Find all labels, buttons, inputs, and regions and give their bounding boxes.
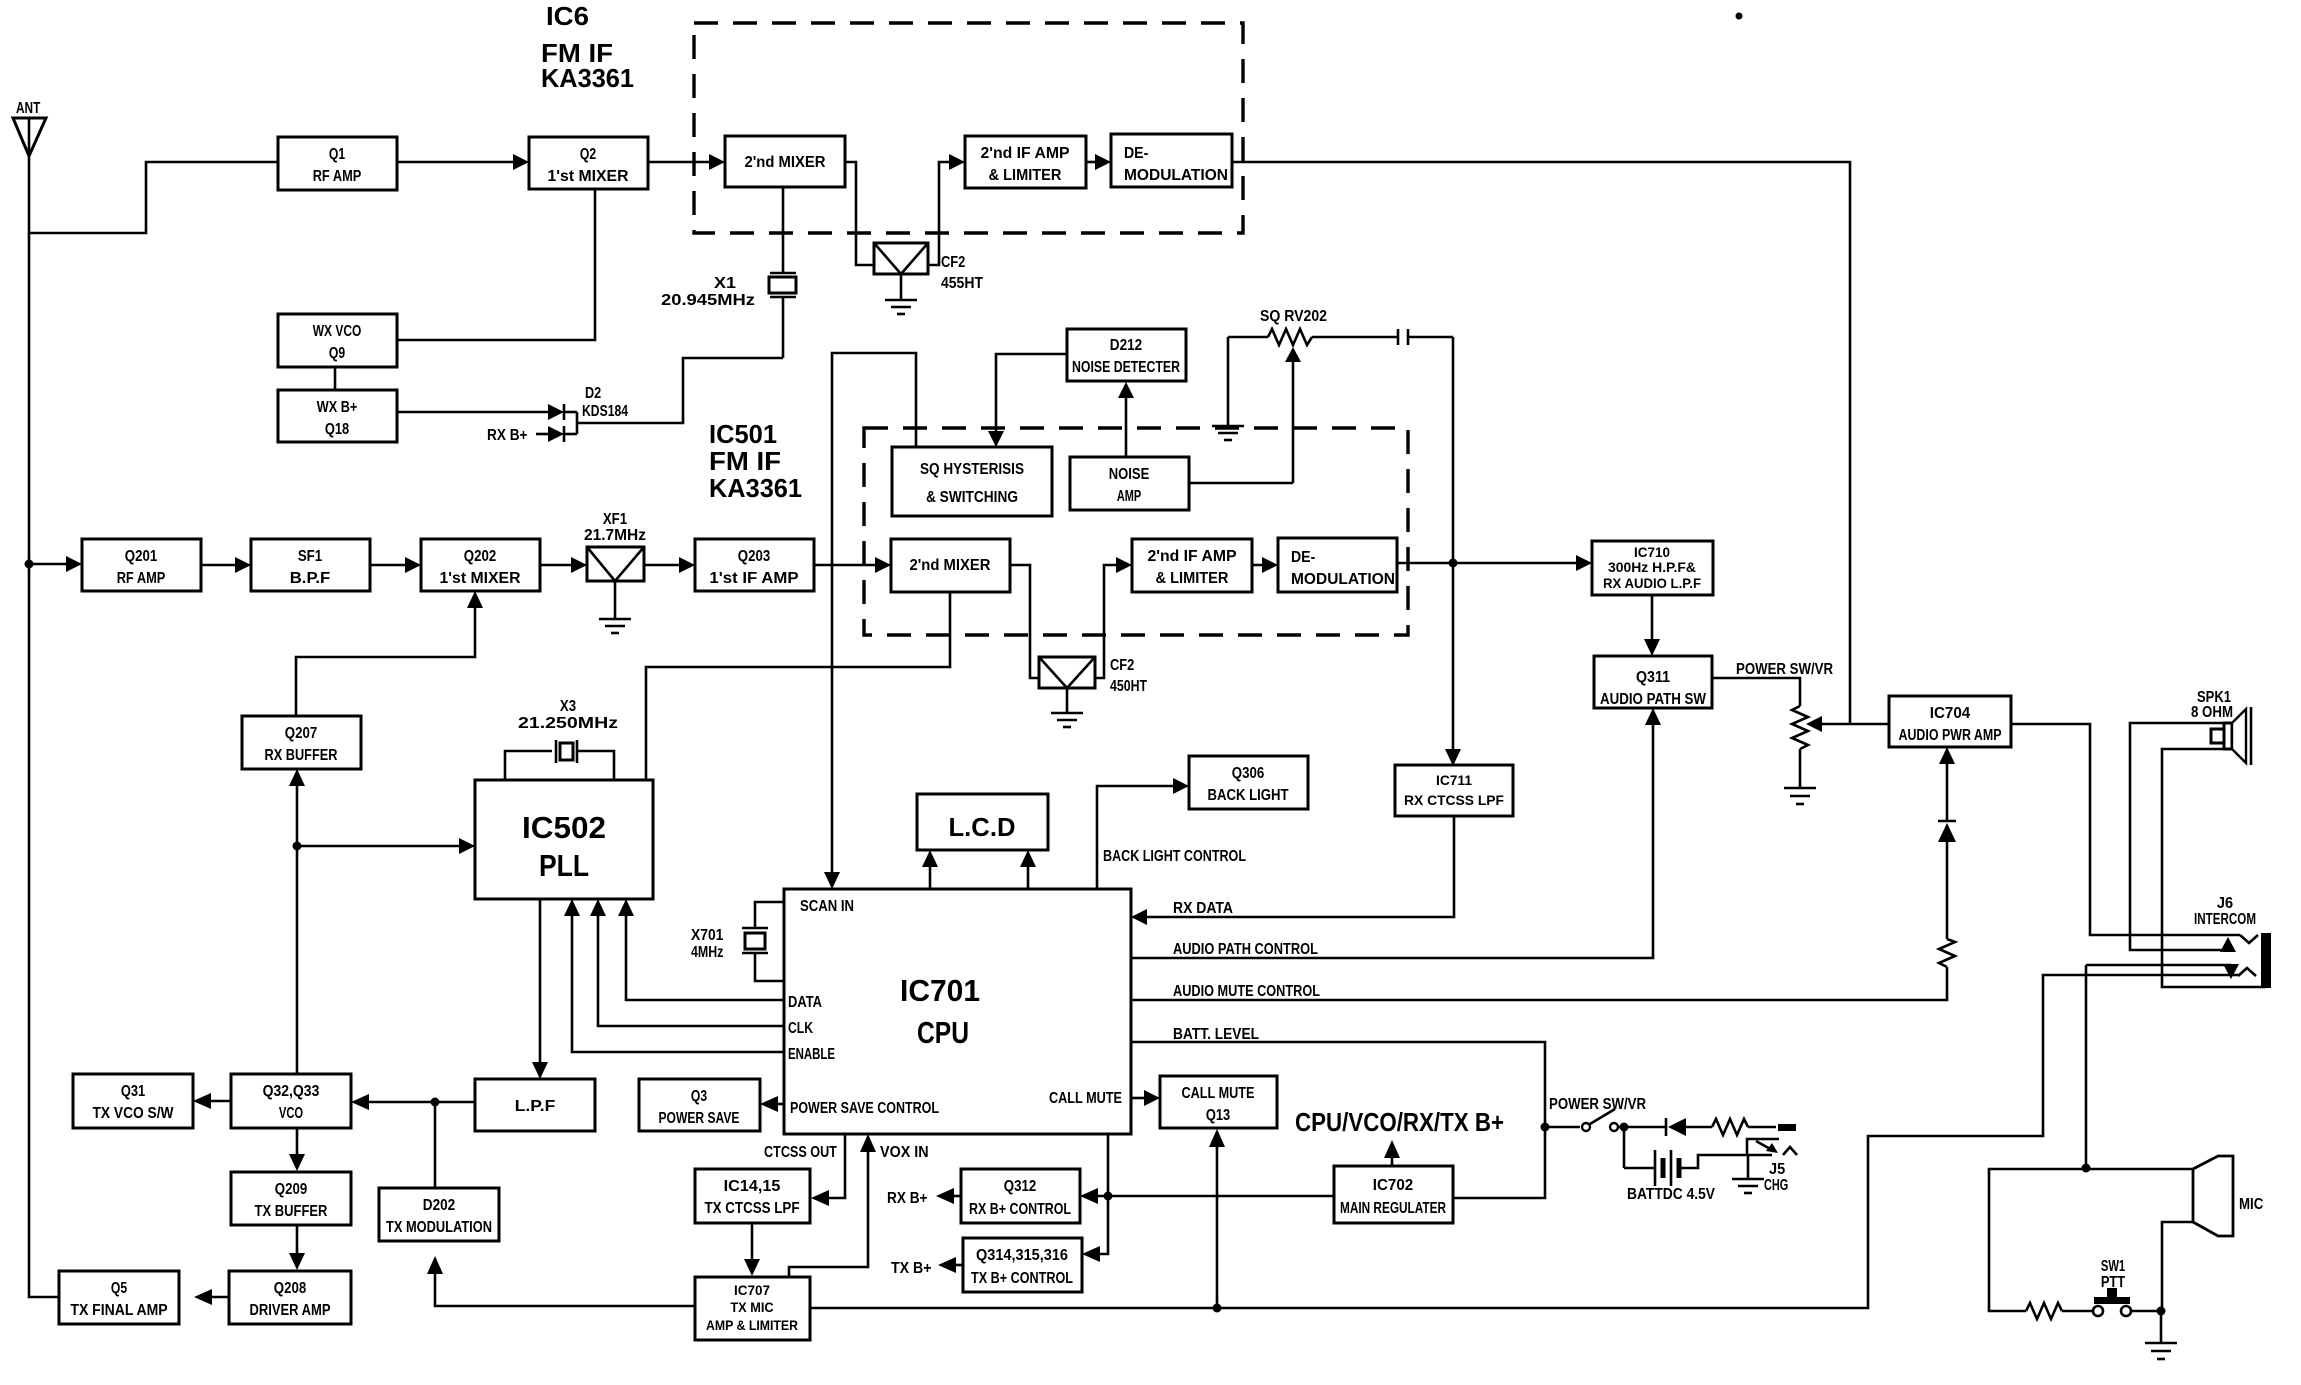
wire Q2 to 2'nd mixer [648,161,711,164]
antenna ANT [13,100,46,156]
svg-text:RF AMP: RF AMP [313,168,362,185]
svg-text:TX CTCSS LPF: TX CTCSS LPF [705,1200,800,1217]
wire Q311 to volume pot [1711,678,1800,706]
transistor Q2 1'st MIXER [529,137,648,189]
svg-text:RX B+: RX B+ [487,427,528,444]
transistor Q32,Q33 VCO [231,1074,351,1128]
wire B+ rail from IC707 to J6 [810,975,2238,1308]
svg-text:Q202: Q202 [464,548,496,565]
svg-text:BATTDC 4.5V: BATTDC 4.5V [1627,1186,1715,1203]
wire resistor to diode [1946,840,1949,939]
svg-text:SF1: SF1 [298,548,322,565]
svg-text:Q13: Q13 [1206,1107,1230,1124]
svg-text:TX MODULATION: TX MODULATION [386,1219,492,1236]
wire CPU audio mute control to IC704 [1131,967,1947,1000]
wire CPU audio path control to Q311 [1131,708,1661,958]
svg-text:Q314,315,316: Q314,315,316 [976,1247,1068,1264]
wire ENABLE CPU to PLL [564,899,784,1052]
svg-text:L.P.F: L.P.F [515,1098,556,1115]
svg-text:Q9: Q9 [329,345,345,362]
svg-text:SQ HYSTERISIS: SQ HYSTERISIS [920,461,1024,478]
svg-text:Q31: Q31 [121,1083,145,1100]
svg-text:CTCSS OUT: CTCSS OUT [764,1144,837,1161]
svg-text:IC701: IC701 [900,973,980,1008]
wiper arrow to IC704 [1806,716,1889,732]
wire CPU to Q306 back light [1097,786,1175,889]
wire IC14,15 to IC707 [744,1223,760,1276]
svg-text:NOISE DETECTER: NOISE DETECTER [1072,359,1180,376]
junction ANT/Q201 [25,560,34,569]
wire Q209 to Q208 [289,1225,305,1270]
wire CPU batt level to battery node [1131,1042,1545,1127]
transistor Q1 RF AMP [278,137,397,190]
wire CLK CPU to PLL [590,899,784,1026]
switch SW1 push button [2093,1288,2159,1316]
crystal X3 21.250MHz [505,698,618,780]
svg-text:Q203: Q203 [738,548,770,565]
svg-text:Q5: Q5 [111,1280,127,1297]
wire Q1 to Q2 [397,161,515,164]
block NOISE AMP [1070,457,1189,510]
svg-text:300Hz H.P.F&: 300Hz H.P.F& [1608,559,1696,575]
transistor Q202 1'st MIXER [421,539,540,591]
wire battery to J5 sleeve [1679,1155,1747,1168]
wire CF2 450HT to 2'nd IF amp [1095,565,1118,678]
wire Q208 to Q5 [194,1289,229,1305]
block IC707 TX MIC AMP & LIMITER [695,1277,810,1340]
wire Q201 to SF1 [201,564,237,567]
svg-text:RF AMP: RF AMP [117,570,166,587]
dashed box IC501 [864,428,1408,635]
block Q306 BACK LIGHT [1189,756,1308,809]
svg-text:VOX IN: VOX IN [880,1144,929,1161]
block D212 NOISE DETECTER [1067,329,1186,381]
wire MIC bottom to junction [2162,1222,2193,1311]
wire capacitor down to demod node [1452,337,1455,563]
wire CF2 to 2'nd IF amp [928,162,951,265]
wire IC707 to D202 [427,1256,695,1306]
wire resistor to switch [2062,1310,2092,1313]
connector J5 CHG jack [1747,1139,1797,1194]
svg-text:RX DATA: RX DATA [1173,900,1233,917]
ground under RV202 [1212,426,1244,440]
svg-text:TX BUFFER: TX BUFFER [255,1203,328,1220]
svg-text:TX B+ CONTROL: TX B+ CONTROL [971,1270,1073,1287]
svg-text:L.C.D: L.C.D [949,812,1016,842]
svg-text:Q209: Q209 [275,1181,307,1198]
svg-text:KA3361: KA3361 [709,473,802,503]
wire Q2 bottom to WX VCO [397,189,595,340]
wire noise amp to D212 [1118,382,1134,457]
ground under XF1 [599,619,631,633]
block Q207 RX BUFFER [242,716,361,769]
svg-text:CALL MUTE: CALL MUTE [1182,1085,1255,1102]
svg-text:TX VCO S/W: TX VCO S/W [93,1105,175,1122]
svg-text:1'st MIXER: 1'st MIXER [548,168,629,185]
svg-text:CALL MUTE: CALL MUTE [1049,1090,1122,1107]
block IC14,15 TX CTCSS LPF [695,1169,810,1223]
wire junction to Q201 [29,563,68,566]
junction B+ rail to Q13 [1213,1304,1222,1313]
svg-text:D212: D212 [1110,337,1142,354]
transistor Q201 RF AMP [82,539,201,591]
wire IC711 to CPU RX DATA [1131,816,1454,925]
wire demodulation to audio amp (long right line) [1232,162,1850,724]
wire IC707 vox to CPU [789,1134,876,1277]
wire Q312 to RX B+ [936,1188,961,1204]
svg-text:TX FINAL AMP: TX FINAL AMP [70,1302,167,1319]
svg-text:1'st IF AMP: 1'st IF AMP [709,570,798,587]
svg-text:IC711: IC711 [1436,772,1472,788]
wire IC702 up to B+ label [1384,1140,1400,1166]
wire WX VCO to WX B+ [334,367,337,390]
svg-text:Q312: Q312 [1004,1178,1036,1195]
arrow into J6 tip contact [2220,937,2236,952]
label J6 INTERCOM [2194,895,2256,928]
svg-text:TX B+: TX B+ [891,1260,932,1277]
wire MIC top line [1989,1164,2193,1312]
transistor Q208 DRIVER AMP [229,1271,351,1324]
filter XF1 21.7MHz [584,511,646,619]
svg-text:Q311: Q311 [1636,669,1670,686]
wire Q202 to XF1 [540,564,573,567]
wire Q207 to Q202 [296,606,475,716]
svg-text:AUDIO MUTE CONTROL: AUDIO MUTE CONTROL [1173,983,1320,1000]
block 2'nd IF AMP & LIMITER (IC6) [965,136,1086,188]
svg-text:IC502: IC502 [522,810,606,845]
wire IC704 output to J6 [2011,724,2240,935]
wiper of SQ RV202 to noise amp [1285,347,1301,483]
svg-text:BACK LIGHT: BACK LIGHT [1208,787,1289,804]
wire 2'nd mixer to CF2 450HT [1010,565,1039,678]
svg-text:NOISE: NOISE [1109,466,1150,483]
transistor Q312 RX B+ CONTROL [961,1169,1080,1223]
transistor Q31 TX VCO S/W [73,1074,193,1128]
svg-text:ANT: ANT [16,100,40,117]
svg-text:1'st MIXER: 1'st MIXER [440,570,521,587]
svg-text:MODULATION: MODULATION [1124,167,1228,184]
wire RV202 left to ground [1227,337,1230,426]
stray ink dot [1736,13,1743,20]
svg-text:& LIMITER: & LIMITER [1156,570,1229,587]
connector J5 tip bar [1778,1124,1796,1131]
arrow into J6 ring contact [2223,964,2239,979]
wire pot to ground [1799,749,1802,788]
block 2'nd IF AMP & LIMITER (IC501) [1132,539,1252,592]
filter L.P.F [475,1079,595,1131]
ground under CF2 450HT [1051,713,1083,727]
svg-text:Q306: Q306 [1232,765,1264,782]
svg-text:21.250MHz: 21.250MHz [518,715,618,732]
display L.C.D [917,794,1048,850]
svg-text:D202: D202 [423,1197,455,1214]
svg-text:WX VCO: WX VCO [313,323,362,340]
block 2'nd MIXER (IC6) [725,136,845,187]
wire resistor to J5 tip [1748,1126,1776,1129]
wire battery node to IC702 [1453,1127,1545,1198]
CPU IC701 [784,889,1131,1134]
svg-text:Q207: Q207 [285,725,317,742]
svg-text:IC702: IC702 [1373,1177,1414,1194]
crystal X701 4MHz [691,902,784,981]
ground under J5 [1732,1155,1764,1193]
transistor CALL MUTE Q13 [1160,1076,1277,1128]
diode D2 KDS184 [548,385,628,442]
svg-text:Q201: Q201 [125,548,157,565]
svg-text:2'nd IF AMP: 2'nd IF AMP [1147,548,1236,565]
filter CF2 455HT [874,243,983,300]
svg-text:IC501: IC501 [709,419,777,449]
junction demod node [1449,559,1458,568]
wire noise amp to squelch pot [1189,482,1293,485]
svg-text:KA3361: KA3361 [541,63,634,93]
svg-text:AUDIO PWR AMP: AUDIO PWR AMP [1899,727,2002,744]
svg-text:X1: X1 [714,275,736,292]
wire D212 to SQ hysterisis [996,354,1067,432]
svg-text:Q3: Q3 [691,1088,707,1105]
switch power sw [1545,1109,1624,1131]
svg-text:CF2: CF2 [1110,657,1134,674]
wire speaker bottom to J6 sleeve [2162,749,2266,987]
svg-text:TX MIC: TX MIC [730,1299,773,1315]
wire VCO to Q31 [193,1093,231,1109]
wire Q203 to 2'nd mixer [814,564,877,567]
wire CPU power save to Q3 [760,1096,784,1112]
svg-text:MIC: MIC [2239,1196,2264,1213]
dashed box IC6 [694,23,1243,233]
svg-text:Q32,Q33: Q32,Q33 [263,1083,320,1100]
svg-text:MODULATION: MODULATION [1291,571,1395,588]
svg-text:DE-: DE- [1291,549,1315,566]
junction MIC/PTT/ground [2157,1307,2166,1316]
wire VCO to Q209 [289,1128,305,1171]
resistor audio mute [1939,939,1955,967]
svg-text:BATT. LEVEL: BATT. LEVEL [1173,1026,1259,1043]
svg-text:450HT: 450HT [1110,678,1147,695]
wire diode to IC704 [1939,747,1955,820]
svg-text:X701: X701 [691,927,723,944]
svg-text:CHG: CHG [1764,1177,1788,1194]
svg-text:SQ RV202: SQ RV202 [1260,308,1327,325]
wire CPU to LCD right [1020,850,1036,889]
wire DATA CPU to PLL [618,899,784,1000]
wire LPF junction to D202 [434,1102,437,1188]
svg-text:2'nd MIXER: 2'nd MIXER [745,154,826,171]
svg-text:AUDIO PATH SW: AUDIO PATH SW [1600,691,1707,708]
junction battery node [1541,1123,1550,1132]
wire CPU to LCD left [922,850,938,889]
svg-text:AUDIO PATH CONTROL: AUDIO PATH CONTROL [1173,941,1318,958]
block DE-MODULATION (IC6) [1111,134,1232,187]
ground under CF2 455HT [885,300,917,314]
svg-text:AMP & LIMITER: AMP & LIMITER [706,1317,798,1333]
svg-text:POWER SAVE: POWER SAVE [659,1110,740,1127]
svg-text:D2: D2 [585,385,601,402]
svg-text:Q2: Q2 [580,146,596,163]
filter CF2 450HT [1039,657,1147,713]
block IC710 300Hz H.P.F & RX AUDIO L.P.F [1592,541,1713,595]
svg-text:DRIVER AMP: DRIVER AMP [250,1302,331,1319]
svg-text:FM IF: FM IF [709,446,781,476]
svg-text:2'nd IF AMP: 2'nd IF AMP [980,145,1069,162]
label IC501 FM IF KA3361 [709,419,802,503]
diode audio mute [1938,821,1956,842]
svg-text:VCO: VCO [279,1105,303,1122]
wire J6 ring down to MIC [2085,965,2088,1168]
svg-text:CF2: CF2 [941,254,965,271]
block WX B+ Q18 [278,390,397,442]
svg-text:INTERCOM: INTERCOM [2194,911,2256,928]
svg-text:RX B+ CONTROL: RX B+ CONTROL [969,1201,1071,1218]
wire CPU ctcss out to IC14,15 [811,1134,845,1206]
label IC6 FM IF KA3361 [541,1,634,93]
diode D202 TX MODULATION [379,1188,499,1241]
svg-text:IC6: IC6 [546,1,589,31]
svg-text:KDS184: KDS184 [582,403,628,420]
wire 2'nd mixer to CF2 [845,162,874,265]
svg-text:IC14,15: IC14,15 [724,1178,781,1195]
svg-text:SCAN IN: SCAN IN [800,898,854,915]
svg-text:Q208: Q208 [274,1280,306,1297]
wire demod node to IC711 [1452,563,1455,751]
wire junction to Q13 [1209,1129,1225,1308]
capacitor squelch coupling [1398,329,1453,345]
svg-text:BACK LIGHT CONTROL: BACK LIGHT CONTROL [1103,848,1246,865]
wire LPF to VCO [351,1094,475,1110]
svg-text:J5: J5 [1769,1161,1785,1178]
block IC704 AUDIO PWR AMP [1889,696,2011,747]
connector J6 jack [2238,933,2271,988]
svg-text:2'nd MIXER: 2'nd MIXER [910,557,991,574]
wire D2 to crystal X1 [577,358,783,423]
svg-text:RX CTCSS LPF: RX CTCSS LPF [1404,792,1504,808]
svg-text:Q1: Q1 [329,146,345,163]
wire speaker top to J6 [2130,723,2228,950]
ground under PTT [2145,1343,2177,1359]
svg-text:455HT: 455HT [941,275,983,292]
block Q203 1'st IF AMP [695,539,814,591]
svg-text:8 OHM: 8 OHM [2191,704,2233,721]
crystal X1 20.945MHz [661,187,796,358]
svg-text:RX BUFFER: RX BUFFER [265,747,338,764]
diode charge path [1624,1118,1712,1136]
battery BATTDC 4.5V [1624,1127,1715,1203]
svg-text:PLL: PLL [539,848,589,883]
wire XF1 to Q203 [644,564,681,567]
svg-text:CPU/VCO/RX/TX B+: CPU/VCO/RX/TX B+ [1295,1107,1504,1137]
wire J6 ring to MIC line [2086,964,2231,967]
svg-text:WX B+: WX B+ [317,399,358,416]
wire ANT down to Q201 and Q5 [29,233,59,1297]
wire SF1 to Q202 [370,564,407,567]
transistor Q5 TX FINAL AMP [59,1271,179,1324]
svg-text:RX AUDIO L.P.F: RX AUDIO L.P.F [1603,575,1701,591]
svg-text:SW1: SW1 [2101,1258,2125,1275]
transistor Q209 TX BUFFER [231,1172,351,1225]
potentiometer SQ RV202 [1228,308,1398,345]
wire WX B+ to diode D2 [397,411,548,414]
svg-text:ENABLE: ENABLE [788,1046,835,1063]
potentiometer volume [1792,706,1808,749]
wire PLL to 2'nd mixer (LO) [646,592,950,780]
svg-text:POWER SW/VR: POWER SW/VR [1736,661,1833,678]
wire junction to ground [2160,1311,2163,1343]
block IC702 MAIN REGULATER [1334,1166,1453,1223]
wire IF amp to demodulation (IC501) [1252,564,1264,567]
microphone MIC [2193,1156,2264,1236]
svg-text:POWER SW/VR: POWER SW/VR [1549,1096,1646,1113]
svg-text:POWER SAVE CONTROL: POWER SAVE CONTROL [790,1100,939,1117]
wire CPU to B+ controls [1082,1134,1108,1262]
svg-text:& LIMITER: & LIMITER [989,167,1062,184]
IC IC502 PLL [475,780,653,899]
svg-text:Q18: Q18 [325,421,349,438]
svg-text:X3: X3 [560,698,576,715]
junction switch/battery [1620,1123,1629,1132]
label SW1 PTT [2101,1258,2125,1291]
svg-text:RX B+: RX B+ [887,1190,928,1207]
svg-text:J6: J6 [2217,895,2233,912]
wire IF amp to demodulation [1086,161,1097,164]
wire ANT to Q1 [29,156,278,233]
svg-text:CLK: CLK [788,1020,813,1037]
speaker SPK1 8 OHM [2191,689,2251,765]
svg-text:DATA: DATA [788,994,822,1011]
wire PLL to LPF [532,899,548,1079]
wire Q207 bottom / PLL / VCO [289,769,475,1074]
block 2'nd MIXER (IC501) [891,539,1010,592]
block WX VCO Q9 [278,314,397,367]
wire IC702 to Q312 [1080,1188,1334,1204]
ground under volume pot [1784,788,1816,804]
svg-text:21.7MHz: 21.7MHz [584,527,646,544]
svg-text:AMP: AMP [1117,488,1142,505]
wire CPU call mute to Q13 [1131,1090,1160,1106]
resistor PTT [2026,1303,2062,1319]
svg-text:IC704: IC704 [1930,705,1971,722]
svg-text:CPU: CPU [917,1015,969,1050]
block Q3 POWER SAVE [639,1079,760,1131]
filter SF1 B.P.F [251,539,370,591]
svg-text:IC707: IC707 [734,1282,770,1298]
svg-text:& SWITCHING: & SWITCHING [926,489,1018,506]
block IC711 RX CTCSS LPF [1395,765,1513,816]
svg-text:DE-: DE- [1124,145,1148,162]
wire SQ hysterisis to CPU scan in [832,353,916,873]
wire IC710 to Q311 [1651,595,1654,641]
svg-text:B.P.F: B.P.F [290,570,331,587]
svg-text:IC710: IC710 [1634,544,1670,560]
svg-text:4MHz: 4MHz [691,944,723,961]
wire demodulation to IC710 [1397,562,1578,565]
block Q311 AUDIO PATH SW [1594,656,1712,708]
block SQ HYSTERISIS & SWITCHING [892,447,1052,516]
svg-text:MAIN REGULATER: MAIN REGULATER [1340,1200,1446,1217]
wire Q314 to TX B+ [938,1257,963,1273]
block DE-MODULATION (IC501) [1278,538,1397,592]
svg-text:XF1: XF1 [603,511,627,528]
transistor Q314,315,316 TX B+ CONTROL [963,1238,1082,1292]
resistor charge path [1712,1119,1748,1135]
wire RX B+ to diode D2 [536,433,548,436]
svg-text:20.945MHz: 20.945MHz [661,292,755,309]
